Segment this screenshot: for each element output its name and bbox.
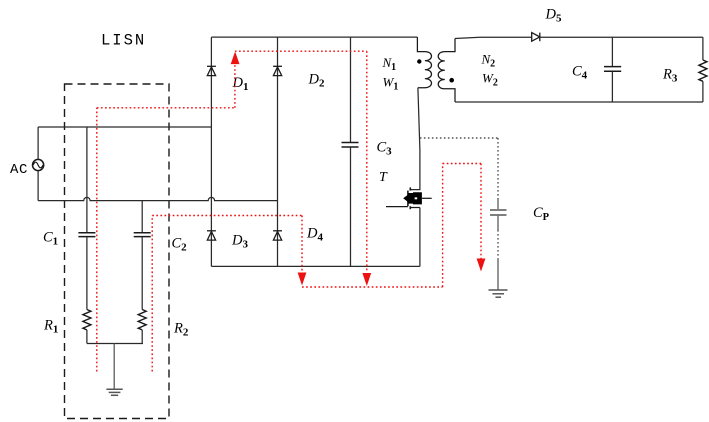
resistor R3 (699, 60, 707, 81)
wire C4 branch (611, 37, 613, 102)
wire R1 bottom (86, 330, 88, 344)
svg-text:C2: C2 (172, 236, 188, 254)
red arrow down at x=302 (298, 273, 307, 286)
capacitor C2 (134, 233, 151, 237)
svg-text:AC: AC (10, 162, 28, 178)
wire Cp lower (part dotted part solid) (497, 216, 499, 230)
svg-text:LISN: LISN (101, 31, 146, 49)
wire AC top lead (37, 127, 39, 159)
svg-text:CP: CP (533, 205, 550, 223)
diode D2 (273, 66, 282, 75)
wire MOSFET source to bottom rail (419, 208, 421, 267)
svg-text:D4: D4 (306, 226, 323, 244)
resistor R2 (138, 310, 146, 330)
ground LISN (106, 389, 122, 395)
diode D5 (532, 33, 540, 42)
svg-text:R1: R1 (43, 318, 58, 336)
svg-text:R2: R2 (173, 321, 189, 339)
transformer T1 primary winding N1 (417, 37, 431, 88)
svg-text:T: T (379, 170, 388, 185)
phase dot primary (417, 59, 421, 63)
wire bridge left vertical (210, 37, 212, 266)
MOSFET body arrow (403, 192, 422, 204)
wire bridge second vertical (277, 37, 279, 266)
red path horizontal above top wire (97, 107, 235, 109)
red path vertical down to arrow (301, 216, 303, 272)
wire bridge top rail (211, 36, 417, 38)
svg-text:D5: D5 (545, 7, 562, 25)
red path bottom horizontal (302, 286, 443, 288)
parasitic path: grey dotted drain to Cp (420, 137, 498, 139)
wire C3 branch (350, 37, 352, 266)
red path horizontal at top of bridge (235, 50, 367, 52)
svg-text:W2: W2 (482, 71, 498, 89)
wire bridge bottom rail (211, 265, 420, 267)
transistor T (MOSFET) (386, 187, 432, 209)
diode D1 (207, 66, 216, 75)
svg-text:R3: R3 (662, 67, 678, 85)
wire C2 branch top (141, 201, 143, 233)
red path horizontal mid (152, 215, 302, 217)
red path vertical up right of MOSFET (442, 164, 444, 288)
capacitor C4 (604, 67, 621, 72)
wire top AC line to bridge (38, 126, 211, 128)
wire LISN bottom junction (87, 343, 143, 345)
wire C1 to R1 (86, 237, 88, 309)
red arrow down at x=366 (362, 273, 371, 286)
red path horizontal to Cp (443, 163, 481, 165)
wire R3 bottom (702, 81, 704, 102)
diode D4 (273, 231, 282, 240)
wire LISN ground stem (113, 344, 115, 389)
wire R2 bottom (141, 330, 143, 344)
diode D3 (207, 231, 216, 240)
red noise path: left vertical in LISN (97, 51, 481, 371)
red arrow down near Cp (477, 259, 486, 272)
capacitor Cp (490, 210, 507, 215)
svg-text:C4: C4 (572, 64, 588, 82)
wire C2 to R2 (141, 237, 143, 309)
red path second LISN vertical (151, 216, 153, 372)
svg-text:C1: C1 (43, 230, 58, 248)
resistor R1 (83, 310, 91, 330)
ground Cp (489, 290, 508, 297)
wire primary to MOSFET drain (410, 88, 420, 190)
AC source V1 (33, 159, 44, 170)
wire AC bottom lead (37, 171, 39, 201)
wire bottom AC line to bridge (hops at x=87 and x=211.4) (38, 197, 277, 200)
svg-text:N1: N1 (382, 55, 397, 73)
red path vertical down to arrow near Cp (480, 164, 482, 260)
grey dotted vertical to Cp (497, 138, 499, 199)
capacitor C3 (342, 143, 359, 148)
red arrow up at D1 (231, 52, 240, 65)
red path vertical down inside bridge (366, 51, 368, 272)
svg-text:D1: D1 (232, 75, 249, 93)
wire secondary top to D5 (455, 37, 532, 38)
wire C1 branch top (86, 127, 88, 232)
red path vertical up to D1 arrow (234, 64, 236, 108)
LISN dashed box (65, 84, 170, 419)
svg-text:N2: N2 (481, 52, 496, 70)
svg-text:W1: W1 (383, 75, 399, 93)
transformer T1 secondary winding N2 (438, 39, 455, 103)
phase dot secondary (449, 78, 454, 83)
wire output bottom rail (455, 101, 703, 103)
svg-text:D2: D2 (308, 72, 325, 90)
wire R3 branch top (702, 37, 704, 60)
svg-text:C3: C3 (377, 140, 393, 158)
wire D5 to output top rail (540, 36, 703, 38)
svg-text:D3: D3 (231, 233, 248, 251)
capacitor C1 (78, 233, 95, 237)
